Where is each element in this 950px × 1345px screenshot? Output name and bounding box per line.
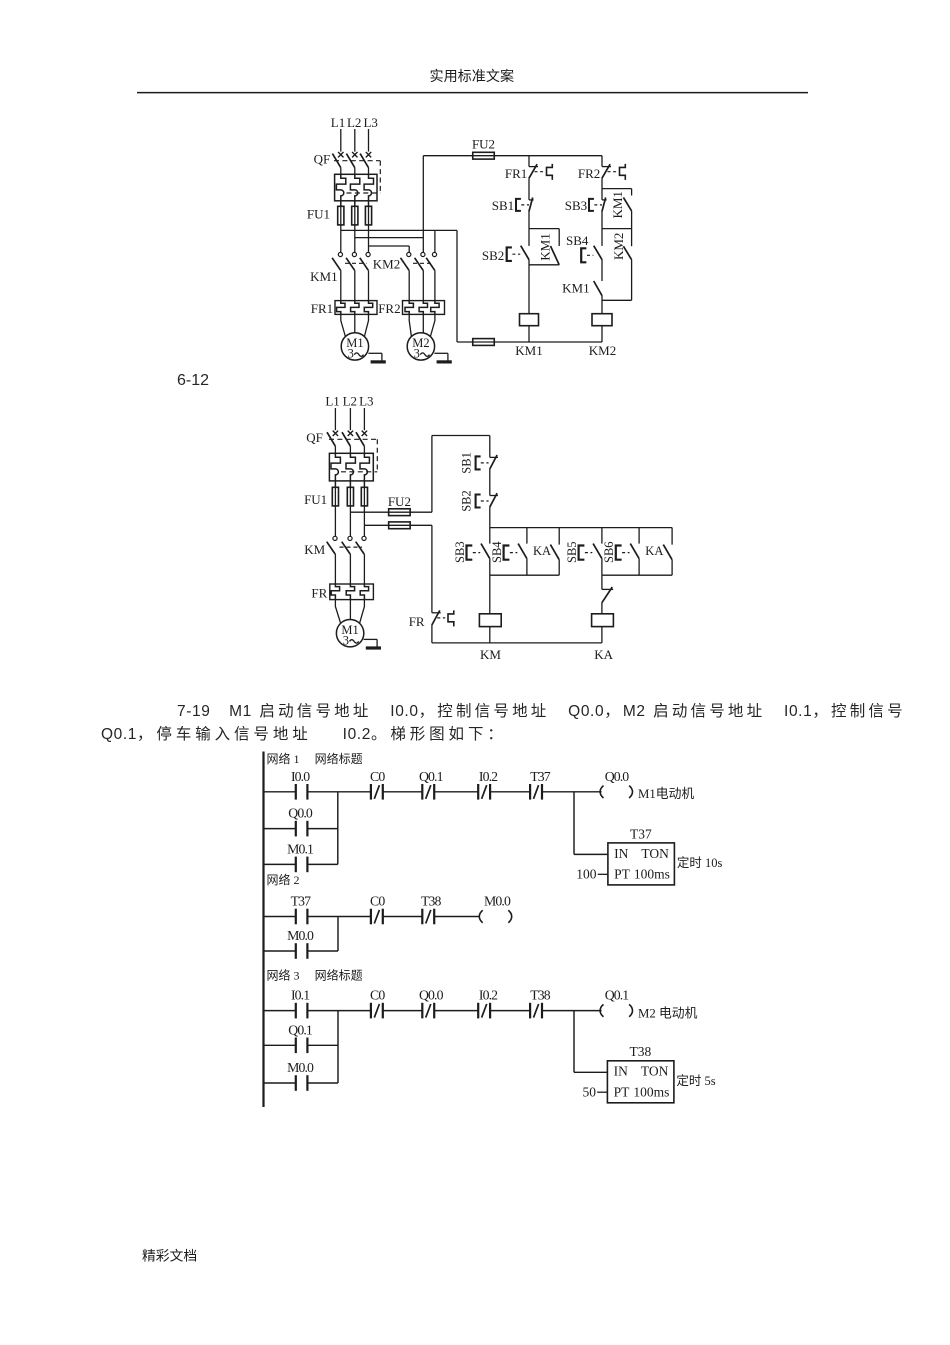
svg-text:KM2: KM2: [611, 233, 626, 260]
svg-text:100: 100: [576, 867, 597, 882]
svg-text:SB5: SB5: [565, 541, 579, 563]
svg-text:Q0.1: Q0.1: [288, 1022, 313, 1037]
svg-text:C0: C0: [370, 988, 385, 1003]
svg-text:I0.2: I0.2: [479, 769, 498, 784]
svg-text:SB2: SB2: [482, 248, 504, 263]
svg-text:FU2: FU2: [472, 137, 495, 152]
svg-text:FR1: FR1: [311, 301, 333, 316]
svg-text:100ms: 100ms: [633, 1085, 669, 1100]
svg-text:KA: KA: [594, 647, 613, 662]
svg-text:SB4: SB4: [566, 233, 589, 248]
svg-text:L2: L2: [343, 394, 357, 409]
svg-text:FU1: FU1: [304, 492, 327, 507]
svg-text:C0: C0: [370, 769, 385, 784]
svg-text:FR2: FR2: [378, 301, 400, 316]
svg-text:定时 5s: 定时 5s: [676, 1073, 715, 1088]
svg-text:FR: FR: [409, 614, 425, 629]
svg-text:SB1: SB1: [460, 452, 474, 474]
svg-text:3: 3: [414, 347, 420, 361]
svg-text:网络 2: 网络 2: [267, 872, 300, 887]
svg-text:QF: QF: [314, 152, 331, 167]
svg-text:KM1: KM1: [310, 269, 337, 284]
svg-text:Q0.1: Q0.1: [419, 769, 444, 784]
svg-text:FR: FR: [311, 585, 327, 600]
svg-text:网络标题: 网络标题: [315, 751, 363, 766]
svg-text:KM1: KM1: [562, 280, 589, 295]
svg-text:定时 10s: 定时 10s: [677, 855, 723, 870]
svg-text:TON: TON: [641, 1064, 669, 1079]
svg-text:KM2: KM2: [373, 257, 400, 272]
svg-text:IN: IN: [614, 1064, 628, 1079]
svg-text:KM1: KM1: [515, 343, 542, 358]
svg-text:FU1: FU1: [307, 207, 330, 222]
svg-text:KM: KM: [304, 542, 325, 557]
svg-text:L3: L3: [359, 394, 373, 409]
svg-text:网络 3: 网络 3: [267, 968, 300, 983]
svg-text:FU2: FU2: [388, 494, 411, 509]
svg-text:FR1: FR1: [505, 166, 527, 181]
svg-text:I0.2: I0.2: [479, 988, 498, 1003]
svg-text:KM1: KM1: [538, 233, 553, 260]
svg-text:IN: IN: [614, 846, 628, 861]
svg-text:3: 3: [348, 347, 354, 361]
svg-text:T38: T38: [530, 988, 551, 1003]
svg-text:T38: T38: [421, 894, 442, 909]
svg-text:SB2: SB2: [460, 490, 474, 512]
svg-text:L1: L1: [331, 115, 345, 130]
svg-text:FR2: FR2: [578, 166, 600, 181]
svg-text:M0.0: M0.0: [484, 894, 511, 909]
svg-text:Q0.0: Q0.0: [288, 806, 313, 821]
svg-text:PT: PT: [614, 1085, 631, 1100]
svg-text:KA: KA: [645, 544, 663, 558]
svg-text:M0.0: M0.0: [287, 928, 314, 943]
svg-text:I0.1: I0.1: [291, 988, 310, 1003]
svg-text:L3: L3: [363, 115, 377, 130]
svg-text:网络标题: 网络标题: [315, 968, 363, 983]
svg-text:M1电动机: M1电动机: [638, 787, 694, 801]
svg-text:Q0.0: Q0.0: [419, 988, 444, 1003]
svg-text:M0.1: M0.1: [287, 842, 314, 857]
svg-text:TON: TON: [641, 846, 669, 861]
svg-text:3: 3: [343, 633, 349, 647]
svg-text:C0: C0: [370, 894, 385, 909]
svg-text:KM: KM: [480, 647, 501, 662]
svg-text:Q0.1: Q0.1: [605, 988, 630, 1003]
svg-text:100ms: 100ms: [634, 867, 670, 882]
svg-text:QF: QF: [306, 430, 323, 445]
svg-text:M0.0: M0.0: [287, 1060, 314, 1075]
svg-text:SB4: SB4: [490, 541, 504, 563]
svg-text:KA: KA: [533, 544, 551, 558]
svg-text:T38: T38: [630, 1044, 652, 1059]
svg-text:SB6: SB6: [602, 541, 616, 563]
svg-text:SB1: SB1: [492, 198, 514, 213]
svg-text:网络 1: 网络 1: [267, 751, 300, 766]
svg-text:L2: L2: [347, 115, 361, 130]
svg-text:I0.0: I0.0: [291, 769, 310, 784]
svg-text:Q0.0: Q0.0: [605, 769, 630, 784]
svg-text:M2 电动机: M2 电动机: [638, 1007, 698, 1021]
svg-text:SB3: SB3: [453, 541, 467, 563]
svg-text:6-12: 6-12: [177, 372, 209, 389]
svg-text:SB3: SB3: [565, 198, 587, 213]
svg-text:精彩文档: 精彩文档: [142, 1249, 197, 1264]
svg-text:实用标准文案: 实用标准文案: [430, 68, 515, 85]
svg-text:PT: PT: [614, 867, 631, 882]
svg-text:KM2: KM2: [589, 343, 616, 358]
svg-text:T37: T37: [530, 769, 551, 784]
svg-text:T37: T37: [291, 894, 312, 909]
svg-text:T37: T37: [630, 826, 652, 841]
svg-text:L1: L1: [325, 394, 339, 409]
svg-text:50: 50: [583, 1085, 597, 1100]
svg-text:KM1: KM1: [610, 191, 625, 218]
